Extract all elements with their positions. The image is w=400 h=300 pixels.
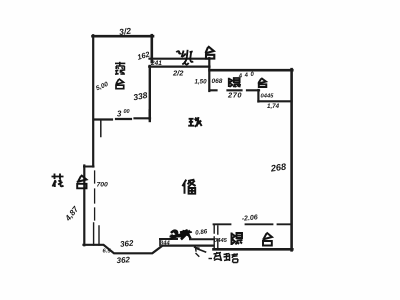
wire flower-bed inner dashed (94, 171, 96, 220)
wire bottom balcony bottom wall (214, 248, 293, 251)
svg-text:1,50: 1,50 (195, 79, 208, 86)
svg-text:268: 268 (269, 161, 287, 173)
svg-text:-2.06: -2.06 (241, 214, 258, 223)
svg-text:4,87: 4,87 (63, 204, 81, 223)
svg-text:241: 241 (150, 60, 162, 67)
svg-text:6.5: 6.5 (103, 249, 112, 255)
svg-text:068: 068 (212, 78, 223, 85)
char 玖 (188, 117, 202, 127)
char 台 (flower bed) (77, 175, 87, 188)
wire stair corridor upper line (150, 58, 210, 60)
svg-text:362: 362 (120, 239, 135, 249)
svg-text:3: 3 (117, 110, 122, 119)
svg-text:0445: 0445 (261, 94, 275, 100)
svg-text:1,74: 1,74 (267, 103, 280, 110)
wire corridor right end vertical (208, 58, 210, 91)
char 台 (bottom balcony) (263, 233, 273, 246)
wire flower-bed inner double ticks (94, 223, 99, 245)
wire terrace right wall (151, 35, 154, 62)
scribble crossed-out (170, 230, 193, 240)
wire flower-bed jog (84, 166, 94, 168)
wire top balcony inner wall segments (210, 89, 260, 91)
wire top balcony step horizontal (258, 100, 291, 102)
char 台 (top balcony) (258, 78, 267, 87)
svg-text:5,00: 5,00 (95, 81, 110, 93)
wire right outer wall (290, 69, 293, 250)
wire bottom inner connector (159, 239, 161, 246)
char 台 (stair) (205, 46, 214, 58)
wire stair corridor lower line (149, 65, 209, 67)
wire main room left wall (149, 66, 151, 121)
svg-text:2/2: 2/2 (172, 69, 184, 78)
svg-text:344: 344 (160, 241, 170, 247)
char 陽 (top balcony) (229, 78, 240, 88)
wire terrace top wall (93, 35, 154, 38)
char 梯 (176, 50, 193, 65)
note dash (209, 258, 213, 260)
char 花 (52, 174, 64, 188)
note scribble chars (214, 252, 239, 263)
svg-text:162: 162 (136, 49, 151, 61)
arrow to note (197, 249, 206, 253)
char 陽 (bottom balcony) (232, 233, 243, 246)
svg-text:338: 338 (132, 90, 148, 102)
wire flower-bed outer wall (83, 166, 85, 246)
char 俻 (182, 180, 195, 194)
char 露 (115, 62, 125, 75)
wire terrace bottom dashed (94, 118, 150, 119)
wire top balcony step vertical (257, 90, 259, 102)
svg-text:3/2: 3/2 (119, 26, 132, 37)
wire bottom wall left (84, 245, 214, 254)
svg-text:700: 700 (97, 182, 109, 189)
svg-text:0.86: 0.86 (195, 228, 208, 237)
wire bottom balcony left dashed double (214, 225, 218, 248)
svg-text:00: 00 (124, 109, 130, 115)
char 台 (of 露台) (116, 79, 124, 89)
svg-text:362: 362 (116, 255, 130, 265)
wire small tick below terrace (100, 121, 102, 137)
wire terrace corner piece (149, 110, 151, 119)
svg-text:0445: 0445 (214, 238, 228, 244)
wire bottom balcony top dashed (214, 223, 292, 225)
wire bottom inner line segments (160, 238, 214, 240)
wire terrace left wall (92, 35, 94, 166)
wire top balcony outer top wall (210, 69, 293, 72)
svg-text:270: 270 (227, 91, 242, 100)
